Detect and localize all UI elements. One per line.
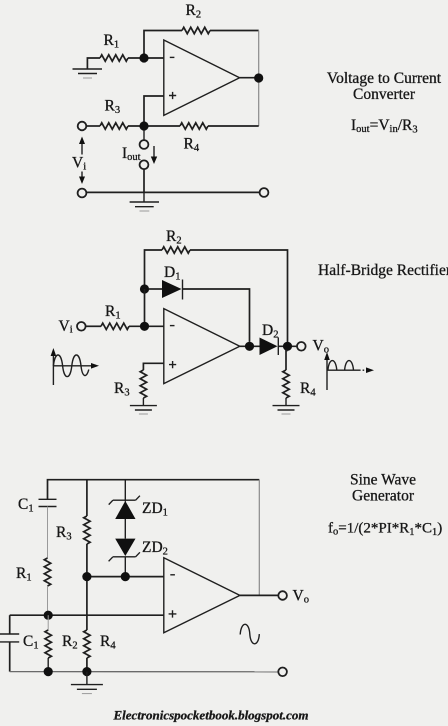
svg-text:R3: R3 [56, 524, 72, 543]
zener ZD2 [115, 539, 135, 556]
wire: op-amp output [240, 345, 260, 347]
wire: ground to R1 [87, 58, 100, 69]
wire: between zeners [124, 519, 126, 539]
resistor R2 [182, 27, 210, 33]
resistor R1 [100, 55, 128, 61]
resistor R3 (vertical) [140, 370, 146, 398]
arrow: Vi up [81, 142, 83, 155]
resistor R3 [100, 123, 128, 129]
svg-text:Electronicspocketbook.blogspot: Electronicspocketbook.blogspot.com [113, 708, 309, 723]
terminal: input Vi [78, 122, 87, 131]
arrow: Vi down [81, 172, 83, 178]
node: inverting input junction [139, 53, 148, 62]
wire: top rail [48, 480, 260, 500]
wire: to bottom rail [143, 169, 145, 192]
node: plus junction [44, 611, 53, 620]
wire: D1 to output node [183, 289, 250, 342]
svg-text:D1: D1 [164, 264, 180, 283]
terminal: input Vi [77, 322, 86, 331]
svg-text:Vo: Vo [313, 338, 329, 356]
node: D1 junction [140, 284, 149, 293]
wire: R4 to bottom rail [86, 658, 88, 672]
svg-text:Iout=Vin/R3: Iout=Vin/R3 [351, 117, 418, 136]
wire: inverting line [87, 576, 164, 578]
svg-text:Vi: Vi [59, 318, 73, 336]
node: output junction [245, 342, 254, 351]
terminal: bottom right [260, 188, 269, 197]
wire: inverting node riser [144, 289, 146, 326]
svg-text:Generator: Generator [352, 488, 415, 505]
wire: R4 to ground [285, 398, 287, 406]
wire: C1 bottom to rail [9, 642, 11, 672]
node: R3 minus junction [82, 572, 91, 581]
svg-text:R1: R1 [16, 565, 32, 584]
wire: rail to ground [86, 672, 88, 685]
wire: C1 to R1 (thin) [47, 507, 49, 559]
wire: R2 branch (thin link) [47, 615, 49, 630]
wire: R3 to minus node [86, 544, 88, 577]
svg-text:R2: R2 [62, 633, 78, 652]
symbol: sine squiggle [240, 624, 259, 643]
arrow: Iout direction [153, 146, 155, 158]
node: output junction [254, 73, 263, 82]
svg-text:ZD1: ZD1 [142, 500, 168, 519]
wire: R3 to ground [142, 398, 144, 406]
wire: input lead [86, 325, 101, 327]
terminal: bottom left [78, 189, 87, 198]
resistor R4 [180, 123, 208, 129]
wire: left branch to C1 bottom [9, 615, 11, 633]
wire: R1 to inverting node [128, 57, 165, 59]
svg-text:R3: R3 [114, 380, 130, 399]
resistor R1 (vertical) [44, 558, 50, 586]
wire: R4 to output bus [208, 125, 259, 127]
svg-text:Voltage to Current: Voltage to Current [327, 70, 442, 87]
op-amp U1 [164, 40, 240, 115]
wire: op-amp output [240, 77, 259, 79]
wire: R2 feedback branch [145, 250, 288, 342]
waveform: output axes [327, 359, 359, 390]
capacitor C1 (bottom) [0, 634, 19, 642]
node: inverting junction [140, 322, 149, 331]
wire: non-inverting to R3 [143, 363, 164, 370]
svg-text:R2: R2 [166, 228, 182, 247]
wire: R3 to node [128, 125, 180, 127]
svg-text:Half-Bridge Rectifier: Half-Bridge Rectifier [318, 262, 448, 279]
wire: R4 branch [286, 351, 288, 370]
wire: R2 to bottom rail [47, 658, 49, 672]
wire: node to Iout terminal [143, 130, 145, 140]
ground (main) [130, 192, 159, 206]
terminal: bottom right [278, 668, 287, 677]
svg-text:R4: R4 [300, 380, 316, 399]
resistor R3 (vertical) [84, 516, 90, 544]
svg-text:C1: C1 [23, 633, 39, 652]
node: non-inverting junction [139, 121, 148, 130]
wire: D2 to Vo [278, 345, 297, 347]
capacitor C1 (top) [39, 499, 57, 506]
wire: non-inverting input riser [144, 96, 165, 126]
svg-text:ZD2: ZD2 [142, 539, 168, 558]
op-amp U3 [164, 558, 240, 633]
wire: grey vertical output bus [258, 31, 260, 127]
resistor R4 (vertical) [283, 370, 289, 398]
ground (R3) [130, 406, 157, 410]
resistor R4 (vertical) [84, 630, 90, 658]
wire: R1 to inverting node [129, 325, 164, 327]
wire: non-inverting line [10, 614, 164, 616]
wire: R3 branch [86, 480, 88, 516]
wire: zener branch top [124, 480, 126, 502]
ground (R4) [273, 406, 300, 410]
svg-text:D2: D2 [262, 322, 278, 341]
terminal: Iout upper [140, 140, 149, 149]
wire: ZD2 to minus node [124, 557, 126, 577]
waveform: output humps [328, 361, 354, 371]
wire: R2 feedback branch top [144, 31, 259, 59]
terminal: Iout lower [140, 160, 149, 169]
terminal: output Vo [278, 591, 287, 600]
terminal: output Vo [297, 342, 306, 351]
wire: R1 to plus node (thin) [47, 586, 49, 615]
wire: op-amp output to Vo [240, 594, 278, 596]
svg-text:R1: R1 [104, 32, 120, 51]
wire: input lead [86, 125, 100, 127]
svg-text:R4: R4 [100, 633, 116, 652]
resistor R2 [162, 247, 190, 253]
diode D2 [260, 338, 278, 356]
node: zener minus junction [121, 572, 130, 581]
ground (R1 input) [73, 69, 103, 74]
node: R4 rail junction [82, 667, 91, 676]
diode D1 [149, 288, 162, 290]
zener ZD1 [109, 496, 140, 505]
resistor R2 (vertical) [45, 630, 51, 658]
svg-text:R4: R4 [184, 136, 200, 155]
svg-text:C1: C1 [18, 496, 34, 515]
resistor R1 [101, 323, 129, 329]
node: Vo junction [283, 342, 292, 351]
waveform: input sine curve [53, 355, 88, 377]
ground (bottom) [71, 685, 103, 690]
waveform: input sine axes [53, 355, 92, 385]
wire: output bus vertical (grey) [258, 480, 260, 596]
svg-text:Iout: Iout [122, 145, 141, 163]
svg-text:Sine Wave: Sine Wave [350, 471, 416, 488]
svg-text:R1: R1 [105, 303, 121, 322]
wire: bottom rail [86, 191, 259, 193]
node: R2 rail junction [44, 667, 53, 676]
svg-text:R2: R2 [186, 2, 202, 21]
wire: bottom rail [10, 671, 279, 673]
svg-text:Vi: Vi [72, 155, 86, 173]
svg-text:Vo: Vo [293, 588, 309, 606]
op-amp U2 [164, 309, 240, 384]
svg-text:fo=1/(2*PI*R1*C1): fo=1/(2*PI*R1*C1) [328, 521, 442, 539]
wire: R4 branch vertical [86, 581, 88, 630]
svg-text:Converter: Converter [353, 86, 416, 103]
svg-text:R3: R3 [105, 98, 121, 117]
